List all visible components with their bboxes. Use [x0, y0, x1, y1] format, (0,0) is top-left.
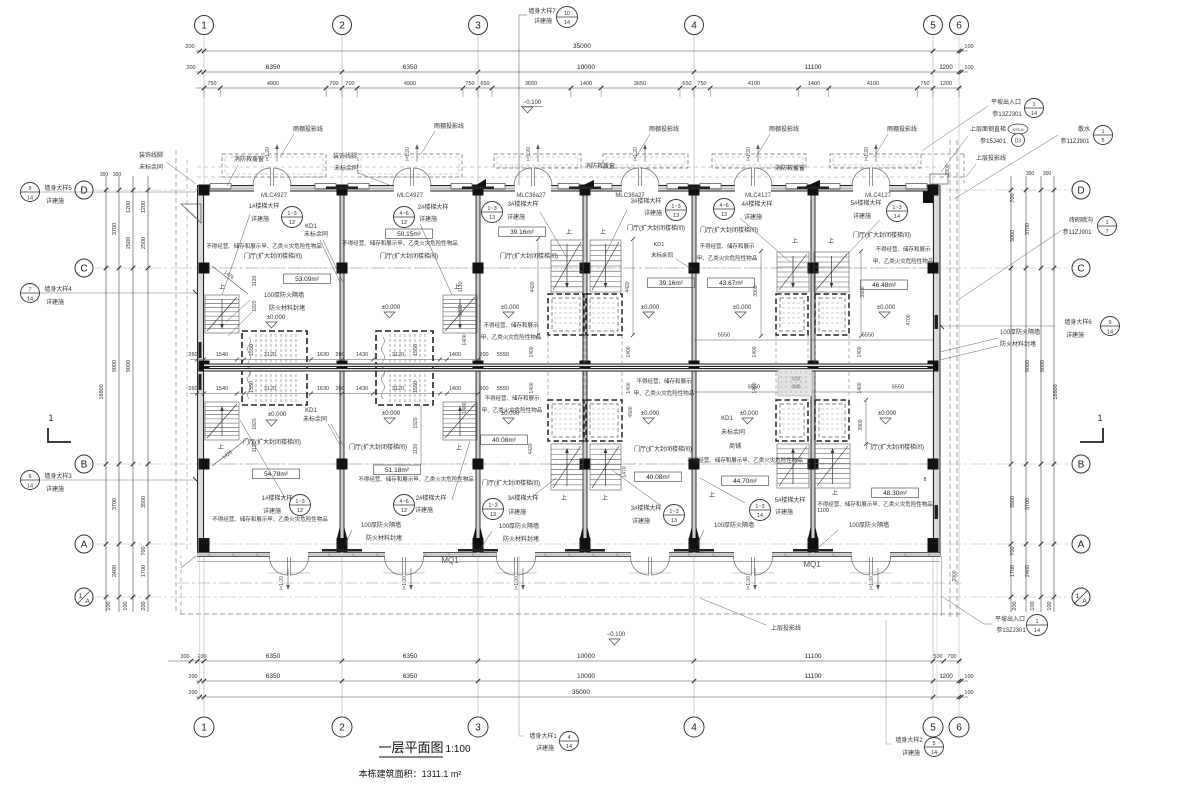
svg-text:4~6: 4~6: [719, 203, 728, 209]
svg-text:A: A: [1082, 598, 1087, 605]
svg-text:9: 9: [1108, 320, 1111, 326]
svg-text:6350: 6350: [403, 653, 418, 660]
svg-text:KD1: KD1: [654, 242, 665, 248]
svg-text:±0.000: ±0.000: [268, 412, 287, 418]
left wall-detail note 7/14: [21, 284, 40, 303]
floor void unit5 upper: [776, 294, 808, 335]
svg-text:13: 13: [721, 212, 727, 218]
svg-text:9000: 9000: [112, 360, 118, 372]
axis line B through building: [204, 463, 933, 465]
threshold bars at party wall bottoms: [322, 549, 362, 552]
svg-text:墙身大样5: 墙身大样5: [44, 184, 72, 192]
top-right ramp canopy extension: [921, 153, 964, 155]
outer dashed projection boundary right: [949, 140, 951, 618]
svg-text:门厅(扩大封闭楼梯间): 门厅(扩大封闭楼梯间): [634, 445, 692, 453]
svg-text:6: 6: [28, 474, 31, 480]
svg-text:5550: 5550: [497, 386, 509, 392]
svg-text:i=1:20: i=1:20: [746, 147, 752, 161]
svg-text:±0.000: ±0.000: [733, 305, 752, 311]
svg-text:B: B: [1078, 460, 1085, 471]
svg-text:14: 14: [1107, 330, 1113, 336]
canopy projection dashed rect unit 1: [222, 154, 326, 177]
right exterior wall: [934, 186, 941, 557]
svg-text:MLC36a27: MLC36a27: [516, 193, 546, 199]
svg-text:MQ1: MQ1: [803, 560, 821, 569]
svg-text:±0.000: ±0.000: [382, 305, 401, 311]
svg-text:C: C: [80, 264, 87, 275]
svg-text:上: 上: [219, 283, 225, 291]
svg-text:上层投影线: 上层投影线: [976, 154, 1006, 162]
svg-text:200: 200: [185, 44, 194, 50]
svg-text:墙身大样7: 墙身大样7: [528, 7, 556, 15]
svg-text:35000: 35000: [572, 689, 590, 696]
svg-text:未标余同: 未标余同: [303, 415, 327, 423]
svg-text:12: 12: [297, 508, 303, 514]
svg-text:1~3: 1~3: [287, 211, 296, 217]
svg-text:300: 300: [1043, 171, 1052, 177]
svg-text:14: 14: [566, 744, 572, 750]
svg-text:5550: 5550: [892, 385, 904, 391]
stair 3# upper: [551, 240, 583, 292]
svg-text:3700: 3700: [112, 498, 118, 510]
svg-text:6350: 6350: [266, 64, 281, 71]
top dimension line detail row: [196, 87, 962, 89]
svg-text:1: 1: [1101, 129, 1104, 135]
svg-text:D: D: [80, 186, 87, 197]
svg-text:100: 100: [1030, 601, 1036, 610]
structural columns: [199, 185, 210, 196]
stair 2# lower: [443, 402, 477, 440]
door leaf triangles at facade: [471, 179, 486, 188]
svg-text:±0.000: ±0.000: [267, 315, 286, 321]
grid bubbles right D C B A 1/A: [1072, 181, 1090, 199]
svg-text:参11ZJ901: 参11ZJ901: [1063, 228, 1093, 236]
left vertical dimension lines: [105, 176, 107, 612]
svg-text:3120: 3120: [392, 352, 404, 358]
svg-text:i=1:20: i=1:20: [864, 147, 870, 161]
svg-text:51.18m²: 51.18m²: [385, 467, 410, 474]
svg-text:i=1:20: i=1:20: [265, 147, 271, 161]
svg-text:13: 13: [489, 215, 495, 221]
svg-text:上层投影线: 上层投影线: [771, 624, 801, 632]
left wall-detail note 6/14: [21, 471, 40, 490]
svg-text:MLC4127: MLC4127: [865, 193, 892, 199]
svg-text:i=1:20: i=1:20: [402, 576, 408, 590]
svg-text:1630: 1630: [317, 386, 329, 392]
svg-text:门厅(扩大封闭楼梯间): 门厅(扩大封闭楼梯间): [380, 252, 438, 260]
svg-text:10000: 10000: [577, 673, 595, 680]
bottom dimension detail row: [168, 660, 962, 662]
svg-text:100厚防火隔墙: 100厚防火隔墙: [361, 521, 401, 529]
svg-text:未标余同: 未标余同: [304, 230, 328, 238]
svg-text:100: 100: [1047, 601, 1053, 610]
svg-text:100: 100: [123, 601, 129, 610]
svg-text:9000: 9000: [126, 360, 132, 372]
svg-text:3#楼梯大样: 3#楼梯大样: [508, 200, 539, 208]
bottom dimension overall 35000: [196, 696, 968, 698]
svg-text:13: 13: [671, 518, 677, 524]
svg-text:1200: 1200: [141, 201, 147, 213]
svg-text:门厅(扩大封闭楼梯间): 门厅(扩大封闭楼梯间): [627, 224, 685, 232]
svg-text:不得经营、储存和展示甲、乙类火灾危险性物品: 不得经营、储存和展示甲、乙类火灾危险性物品: [817, 500, 933, 508]
svg-text:本栋建筑面积：1311.1 m²: 本栋建筑面积：1311.1 m²: [359, 768, 462, 779]
bottom curtain wall MQ1: [197, 553, 940, 557]
canopy projection dashed rect unit 5: [712, 154, 806, 168]
floor void unit4 upper: [586, 294, 622, 335]
unit2 lower texts: [374, 465, 421, 475]
svg-text:10000: 10000: [577, 64, 595, 71]
svg-text:1400: 1400: [626, 382, 632, 393]
svg-text:200: 200: [141, 601, 147, 610]
svg-text:14: 14: [27, 196, 33, 202]
svg-text:1200: 1200: [126, 201, 132, 213]
shaded refuse point: [778, 369, 812, 396]
svg-text:1: 1: [1097, 413, 1102, 423]
svg-text:参13ZJ301: 参13ZJ301: [992, 110, 1022, 118]
svg-text:参15J401: 参15J401: [980, 137, 1006, 145]
canopy projection dashed rect unit 3: [494, 154, 581, 168]
svg-text:3#楼梯大样: 3#楼梯大样: [631, 504, 662, 512]
svg-text:200: 200: [335, 352, 344, 358]
svg-text:1400: 1400: [857, 382, 863, 393]
unit5 upper stair note: [714, 199, 735, 220]
svg-text:7: 7: [28, 287, 31, 293]
svg-text:不得经营、储存和展示: 不得经营、储存和展示: [484, 394, 540, 402]
svg-text:2#楼梯大样: 2#楼梯大样: [416, 494, 447, 502]
svg-text:9000: 9000: [1025, 360, 1031, 372]
svg-text:4100: 4100: [867, 81, 879, 87]
svg-text:1200: 1200: [939, 674, 953, 680]
svg-text:KD1: KD1: [721, 416, 733, 422]
svg-text:详建施: 详建施: [46, 485, 64, 493]
svg-text:6350: 6350: [403, 64, 418, 71]
note wall detail 2 bottom right: [885, 620, 887, 744]
svg-text:i=1:20: i=1:20: [526, 147, 532, 161]
svg-text:i=1:20: i=1:20: [405, 147, 411, 161]
svg-text:上: 上: [600, 228, 606, 236]
svg-text:±0.000: ±0.000: [740, 411, 759, 417]
svg-text:1130: 1130: [413, 443, 419, 454]
mid band wall upper: [204, 364, 933, 367]
svg-text:2: 2: [339, 723, 345, 734]
svg-text:6350: 6350: [266, 673, 281, 680]
stair 5# lower: [815, 444, 850, 488]
svg-text:5#楼梯大样: 5#楼梯大样: [851, 199, 882, 207]
unit2 upper stair note: [394, 207, 415, 228]
svg-text:300: 300: [100, 172, 109, 178]
svg-text:40.08m²: 40.08m²: [492, 437, 517, 444]
svg-text:±0.000: ±0.000: [501, 305, 520, 311]
svg-text:1550: 1550: [413, 381, 419, 393]
right vertical dimension lines: [1010, 176, 1012, 612]
svg-text:1700: 1700: [1010, 565, 1016, 577]
svg-text:1550: 1550: [249, 381, 255, 393]
svg-text:2800: 2800: [945, 164, 951, 175]
svg-text:B: B: [81, 460, 88, 471]
svg-text:上: 上: [456, 444, 462, 452]
svg-text:1400: 1400: [857, 346, 863, 357]
svg-text:±0.000: ±0.000: [877, 305, 896, 311]
svg-text:2: 2: [339, 21, 345, 32]
svg-text:2500: 2500: [141, 237, 147, 249]
svg-text:MLC4127: MLC4127: [745, 193, 772, 199]
extension lines bottom corners: [199, 556, 201, 700]
svg-text:平坡出入口: 平坡出入口: [995, 615, 1025, 623]
svg-text:700: 700: [947, 654, 956, 660]
svg-text:1130: 1130: [252, 441, 258, 452]
canopy projection dashed rect unit 2: [358, 154, 462, 177]
svg-text:5#楼梯大样: 5#楼梯大样: [775, 496, 806, 504]
svg-text:A: A: [81, 540, 88, 551]
svg-text:5: 5: [930, 21, 936, 32]
svg-text:3500: 3500: [141, 496, 147, 508]
svg-text:100: 100: [106, 601, 112, 610]
svg-text:5: 5: [932, 741, 935, 747]
svg-text:1:100: 1:100: [445, 744, 470, 755]
svg-text:200: 200: [188, 674, 197, 680]
plinth line bottom: [197, 561, 940, 563]
svg-text:1: 1: [201, 21, 207, 32]
svg-text:−0.100: −0.100: [523, 100, 542, 106]
stair 1# lower: [205, 402, 239, 440]
party wall at x=342: [340, 191, 344, 553]
svg-text:1820: 1820: [458, 304, 464, 315]
svg-text:3700: 3700: [112, 223, 118, 235]
svg-text:门厅(扩大封闭楼梯间): 门厅(扩大封闭楼梯间): [482, 479, 540, 487]
svg-text:3#楼梯大样: 3#楼梯大样: [631, 197, 662, 205]
svg-text:8: 8: [924, 477, 927, 483]
svg-text:1~3: 1~3: [892, 205, 901, 211]
svg-text:4420: 4420: [625, 281, 631, 292]
svg-text:14: 14: [1031, 111, 1037, 117]
svg-text:1630: 1630: [317, 352, 329, 358]
svg-text:5: 5: [1101, 138, 1104, 144]
corner wedge bottom-left: [181, 556, 196, 568]
svg-text:详建施: 详建施: [415, 506, 433, 514]
svg-text:13: 13: [490, 512, 496, 518]
svg-text:6: 6: [956, 723, 962, 734]
canopy connector dashes: [197, 176, 940, 178]
svg-text:3: 3: [475, 21, 481, 32]
svg-text:消防救援窗: 消防救援窗: [234, 155, 264, 163]
svg-text:商铺: 商铺: [729, 442, 741, 450]
svg-text:1400: 1400: [752, 382, 758, 393]
svg-text:1400: 1400: [626, 346, 632, 357]
svg-text:甲、乙类火灾危险性物品: 甲、乙类火灾危险性物品: [634, 389, 695, 397]
dashed line below facade: [177, 582, 962, 584]
svg-text:100厚防火隔墙: 100厚防火隔墙: [714, 521, 754, 529]
unit1 lower texts: [253, 469, 300, 479]
svg-text:14: 14: [1034, 628, 1040, 634]
svg-text:不得经营、储存和展示: 不得经营、储存和展示: [483, 321, 539, 329]
svg-text:14: 14: [757, 513, 763, 519]
svg-text:18800: 18800: [99, 384, 105, 399]
svg-text:4100: 4100: [748, 81, 760, 87]
note wall detail 1 bottom: [518, 556, 520, 736]
svg-text:1~3: 1~3: [488, 503, 497, 509]
svg-text:750: 750: [465, 81, 474, 87]
svg-text:墙身大样4: 墙身大样4: [44, 285, 72, 293]
svg-text:未标余同: 未标余同: [139, 163, 163, 171]
svg-text:收集: 收集: [792, 383, 801, 390]
svg-text:40.08m²: 40.08m²: [646, 474, 671, 481]
svg-text:11100: 11100: [804, 653, 821, 660]
svg-text:1820: 1820: [252, 300, 258, 311]
svg-text:5550: 5550: [718, 333, 730, 339]
svg-text:−0.100: −0.100: [607, 632, 626, 638]
svg-text:2#楼梯大样: 2#楼梯大样: [418, 203, 449, 211]
svg-text:35000: 35000: [573, 43, 591, 50]
interior dimension row upper: [190, 359, 480, 361]
svg-text:5550: 5550: [497, 352, 509, 358]
svg-text:1430: 1430: [356, 352, 368, 358]
svg-text:9000: 9000: [1040, 360, 1046, 372]
svg-text:上: 上: [828, 237, 834, 245]
floor void unit2: [376, 331, 433, 405]
svg-text:散水: 散水: [1078, 125, 1090, 133]
svg-text:1540: 1540: [216, 386, 228, 392]
svg-text:±0.000: ±0.000: [382, 411, 401, 417]
svg-text:4500: 4500: [628, 406, 634, 417]
svg-text:100厚防火隔墙: 100厚防火隔墙: [1000, 328, 1040, 336]
svg-text:48.30m²: 48.30m²: [883, 490, 908, 497]
party wall at x=813: [811, 191, 815, 553]
svg-text:6: 6: [956, 21, 962, 32]
5# stair note lower middle: [750, 500, 771, 521]
svg-text:12: 12: [401, 220, 407, 226]
unit3 upper stair note: [482, 202, 503, 223]
svg-text:10000: 10000: [577, 653, 595, 660]
svg-text:500: 500: [933, 654, 942, 660]
bottom facade double door swings: [270, 557, 288, 575]
interior dims right units 5550: [694, 339, 813, 341]
svg-text:不得经营、储存和展示: 不得经营、储存和展示: [875, 245, 931, 253]
corner entrance wedge top-left: [181, 204, 201, 223]
svg-text:200: 200: [479, 352, 488, 358]
floor void unit5 lower: [776, 400, 808, 441]
svg-text:上: 上: [602, 494, 608, 502]
svg-text:1~3: 1~3: [671, 204, 680, 210]
svg-text:3700: 3700: [1025, 498, 1031, 510]
svg-text:4420: 4420: [528, 443, 534, 454]
svg-text:300: 300: [113, 172, 122, 178]
svg-text:1~3: 1~3: [755, 504, 764, 510]
svg-text:1: 1: [1105, 220, 1108, 226]
svg-text:门厅(扩大封闭楼梯间): 门厅(扩大封闭楼梯间): [244, 252, 302, 260]
svg-text:A: A: [1078, 540, 1085, 551]
svg-text:C: C: [1077, 264, 1084, 275]
svg-text:门厅(扩大封闭楼梯间): 门厅(扩大封闭楼梯间): [853, 231, 911, 239]
3900 dim lines right units: [760, 251, 762, 336]
svg-text:5550: 5550: [862, 333, 874, 339]
svg-text:1~3: 1~3: [487, 206, 496, 212]
svg-text:未标余同: 未标余同: [334, 164, 358, 172]
top facade door openings: [254, 184, 290, 193]
svg-text:53.09m²: 53.09m²: [295, 276, 320, 283]
svg-text:200: 200: [186, 65, 195, 71]
svg-text:1400: 1400: [529, 346, 535, 357]
svg-text:1200: 1200: [940, 81, 952, 87]
svg-text:上: 上: [566, 228, 572, 236]
svg-text:260: 260: [188, 386, 197, 392]
svg-text:100厚防火隔墙: 100厚防火隔墙: [264, 291, 304, 299]
svg-text:防火材料封堵: 防火材料封堵: [1000, 340, 1036, 348]
svg-text:详建施: 详建施: [1066, 331, 1084, 339]
svg-text:上: 上: [218, 443, 224, 451]
vertical grid axis lines 1-6: [203, 33, 205, 716]
svg-text:11100: 11100: [804, 64, 821, 71]
svg-text:750: 750: [920, 81, 929, 87]
svg-text:1400: 1400: [580, 81, 592, 87]
svg-text:门厅(扩大封闭楼梯间): 门厅(扩大封闭楼梯间): [866, 443, 924, 451]
svg-text:墙身大样2: 墙身大样2: [895, 736, 923, 744]
svg-text:39.16m²: 39.16m²: [510, 229, 535, 236]
svg-text:1820: 1820: [413, 417, 419, 428]
top dimension line overall 35000: [196, 50, 968, 52]
svg-text:700: 700: [1010, 546, 1016, 555]
top facade double door swings: [253, 168, 271, 186]
stair 3# upper mirror: [590, 240, 621, 292]
svg-text:i=1:20: i=1:20: [869, 576, 875, 590]
svg-text:3650: 3650: [634, 81, 646, 87]
svg-text:KD1: KD1: [305, 408, 317, 414]
svg-text:1400: 1400: [808, 81, 820, 87]
svg-text:50.15m²: 50.15m²: [397, 231, 422, 238]
stair 2# upper: [443, 295, 477, 333]
svg-text:100: 100: [964, 44, 973, 50]
svg-text:1400: 1400: [462, 402, 468, 413]
svg-text:门厅(扩大封闭楼梯间): 门厅(扩大封闭楼梯间): [349, 443, 407, 451]
svg-text:12: 12: [401, 508, 407, 514]
top dimension line spans 6350/6350/10000/11100/1200: [196, 71, 968, 73]
svg-text:300: 300: [180, 654, 189, 660]
svg-text:3#楼梯大样: 3#楼梯大样: [508, 494, 539, 502]
svg-text:详建施: 详建施: [775, 508, 793, 516]
svg-text:200: 200: [1012, 601, 1018, 610]
outer dashed projection boundary left: [175, 150, 177, 614]
svg-text:4: 4: [567, 735, 570, 741]
svg-text:4: 4: [691, 723, 697, 734]
svg-text:i=1:20: i=1:20: [279, 576, 285, 590]
svg-text:3500: 3500: [1010, 496, 1016, 508]
upper-floor projection dashed line bottom: [180, 613, 962, 615]
svg-text:甲、乙类火灾危险性物品: 甲、乙类火灾危险性物品: [481, 333, 542, 341]
party wall at x=585: [583, 191, 587, 553]
svg-text:1400: 1400: [529, 382, 535, 393]
svg-text:1550: 1550: [413, 344, 419, 356]
svg-text:4~6: 4~6: [399, 211, 408, 217]
floor void unit3 lower: [548, 400, 584, 441]
svg-text:3700: 3700: [1025, 223, 1031, 235]
svg-text:700: 700: [1010, 193, 1016, 202]
floor void unit6 lower: [815, 400, 849, 441]
svg-text:上: 上: [832, 489, 838, 497]
svg-text:14: 14: [27, 297, 33, 303]
svg-text:消防救援窗: 消防救援窗: [585, 162, 615, 170]
svg-text:4900: 4900: [404, 81, 416, 87]
svg-text:2400: 2400: [1025, 565, 1031, 577]
svg-text:详建施: 详建施: [632, 517, 650, 525]
svg-text:1~3: 1~3: [295, 499, 304, 505]
stair 3# lower: [551, 444, 583, 490]
floor void unit1: [242, 331, 307, 405]
top-right corner column: [923, 185, 940, 203]
svg-text:装饰线脚: 装饰线脚: [139, 151, 163, 159]
stair 1# upper: [205, 295, 239, 333]
svg-text:墙身大样3: 墙身大样3: [44, 472, 72, 480]
unit5 lower texts: [722, 476, 769, 486]
svg-text:4420: 4420: [530, 281, 536, 292]
